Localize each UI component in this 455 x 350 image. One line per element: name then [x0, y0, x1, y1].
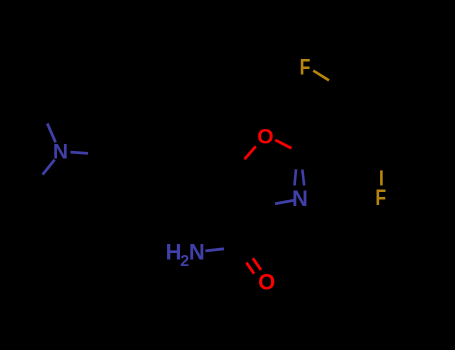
svg-text:O: O: [257, 126, 273, 149]
wire N-methyl bond lower-left: [43, 160, 55, 175]
svg-text:2: 2: [180, 253, 189, 270]
wire N-aryl bond right stub: [71, 152, 89, 153]
wire C2=N3 double bond line right: [302, 170, 304, 186]
wire C2=N3 double bond line left: [295, 169, 297, 185]
wire N3-C4 bond stub: [275, 200, 294, 203]
svg-text:N: N: [292, 186, 308, 211]
wire O1-C2 bond stub: [275, 140, 291, 148]
svg-text:F: F: [375, 186, 386, 210]
wire C6'-F bond stub: [380, 170, 383, 185]
wire C=O double bond line upper: [253, 258, 261, 270]
wire N-methyl bond upper-left: [47, 124, 55, 143]
svg-text:H: H: [166, 239, 182, 264]
wire C=O double bond line lower: [246, 263, 254, 274]
wire O1-C5 bond stub: [245, 146, 256, 159]
svg-text:F: F: [300, 56, 311, 80]
svg-text:O: O: [258, 270, 275, 295]
wire H2N-C bond stub: [205, 249, 224, 251]
wire F-C2' bond stub: [313, 71, 329, 81]
svg-text:N: N: [189, 239, 205, 264]
